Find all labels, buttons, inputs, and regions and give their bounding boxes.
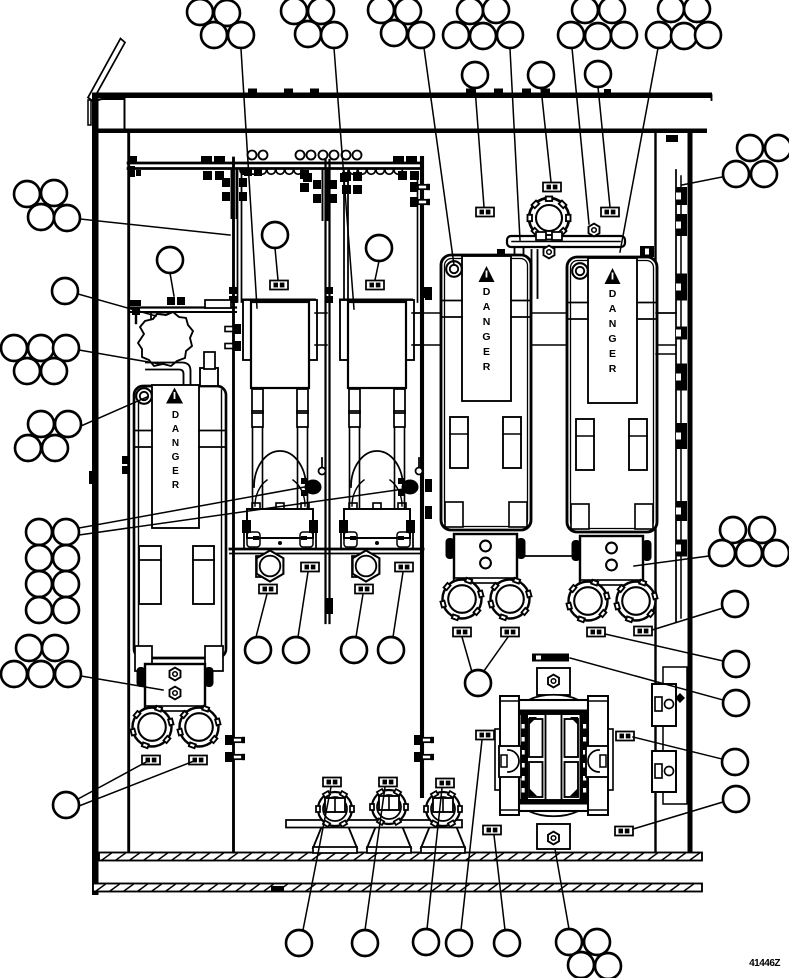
leader S0	[652, 608, 723, 630]
leader bot4	[461, 740, 482, 930]
svg-text:R: R	[609, 363, 617, 375]
balloon single bot3	[413, 929, 439, 955]
left unit windows	[139, 546, 214, 604]
left wall tab	[89, 471, 93, 484]
divider 3 bolts top	[410, 182, 431, 298]
transformer black bar	[532, 654, 569, 662]
leader single 170	[170, 273, 174, 296]
terminal connecting line	[517, 555, 575, 557]
right wall C brackets	[676, 187, 687, 205]
transformer body	[495, 695, 613, 816]
balloon cluster H	[1, 335, 79, 384]
balloon cluster J	[709, 517, 789, 566]
rail nut group right end	[393, 156, 419, 180]
left unit rail parts	[130, 297, 185, 323]
svg-text:A: A	[483, 301, 491, 313]
leader S3	[633, 737, 722, 759]
svg-text:D: D	[172, 410, 179, 421]
mid hub 1	[256, 551, 283, 582]
right unit 1	[440, 255, 531, 620]
leader H	[79, 350, 160, 364]
svg-text:E: E	[172, 466, 179, 477]
label box wire clamp	[151, 313, 169, 322]
insulator caps	[325, 798, 345, 812]
balloon single 478	[465, 670, 491, 696]
svg-text:N: N	[172, 438, 179, 449]
right unit bottom labels	[453, 627, 652, 637]
transformer top tab	[537, 668, 570, 695]
roof bolt heads	[248, 89, 611, 94]
leader C	[424, 48, 454, 265]
leader S2	[570, 658, 723, 700]
top area labels	[476, 183, 619, 217]
cabinet top front rail	[92, 93, 712, 134]
band tick	[271, 886, 284, 892]
leader F	[620, 48, 658, 252]
outlet 1	[652, 684, 685, 726]
leader left cluster	[80, 219, 230, 235]
balloon single 598	[585, 61, 611, 87]
balloon single M1	[262, 222, 288, 248]
balloon single S2	[723, 690, 749, 716]
insulator rings	[316, 789, 462, 827]
balloon single M2	[366, 235, 392, 261]
balloon single bot5	[494, 930, 520, 956]
right unit grommets	[446, 261, 588, 279]
left unit hinge bracket	[200, 352, 218, 386]
insulator bells	[313, 816, 357, 848]
balloon single bot4	[446, 930, 472, 956]
divider panel 2	[326, 160, 330, 623]
hanger bracket center	[303, 170, 349, 220]
outlet 2	[652, 751, 676, 792]
right wall bracket rail	[656, 170, 681, 622]
cable blob	[138, 312, 193, 366]
balloon single 475	[462, 62, 488, 88]
leader bot2	[365, 787, 385, 930]
divider panel 3	[420, 158, 424, 796]
balloon single 170	[157, 247, 183, 273]
balloon single mid2	[283, 637, 309, 663]
hanger bracket left panel	[222, 168, 250, 218]
insulator shelf	[286, 820, 462, 828]
balloon cluster L	[1, 635, 81, 687]
left unit grommet	[136, 388, 152, 404]
left unit label boxes	[142, 756, 207, 765]
left unit top rail	[129, 300, 236, 312]
bay drop lines	[238, 171, 418, 302]
leader mid3	[356, 594, 363, 637]
svg-text:41446Z: 41446Z	[749, 958, 780, 969]
balloon cluster G	[723, 135, 789, 187]
balloon single SL	[53, 792, 79, 818]
insulator labels	[323, 778, 454, 788]
right unit 2	[566, 257, 657, 622]
leader M1	[275, 248, 278, 280]
rail nut group left	[201, 156, 225, 180]
balloon cluster D	[443, 0, 523, 49]
svg-text:A: A	[609, 303, 617, 315]
leader bot3	[427, 788, 442, 929]
left unit danger label	[152, 385, 199, 528]
leader B	[334, 48, 354, 309]
balloon cluster bot	[556, 929, 621, 978]
leader single 475	[475, 88, 484, 207]
leader mid4	[393, 572, 403, 637]
leader bot5	[494, 835, 505, 930]
leader G	[682, 176, 727, 185]
leader mid2	[298, 572, 308, 637]
divider 1 bolts bottom	[225, 735, 245, 762]
left unit conduit rings	[130, 706, 220, 748]
divider 2 tabs	[325, 287, 333, 614]
leader I	[81, 397, 147, 426]
balloon single bot2	[352, 930, 378, 956]
balloon cluster C	[368, 0, 434, 48]
left unit feet	[135, 646, 223, 671]
cabinet top lid flap	[88, 39, 125, 126]
bottom sill hatched	[93, 861, 702, 892]
breaker cross wires	[315, 313, 676, 345]
left unit side bands	[134, 431, 226, 448]
leader SL1	[78, 761, 148, 799]
divider panel 1	[232, 158, 235, 852]
svg-text:E: E	[609, 348, 616, 360]
leader single 598	[598, 87, 610, 207]
bus bar	[497, 236, 625, 298]
balloon single 541	[528, 62, 554, 88]
leader single 65	[78, 294, 156, 316]
middle breaker 1	[242, 299, 326, 549]
clamp ring	[528, 197, 571, 241]
balloon single S3	[722, 749, 748, 775]
right wall small mark	[666, 135, 678, 142]
leader K1	[79, 486, 310, 528]
balloon single 65	[52, 278, 78, 304]
top mounting rail	[128, 163, 422, 169]
balloon cluster left top	[14, 180, 80, 231]
leader K2	[79, 489, 404, 535]
leader 478b	[484, 637, 508, 671]
leader J	[634, 556, 709, 566]
leader S1	[605, 634, 723, 661]
rail washers	[248, 151, 362, 160]
svg-text:G: G	[608, 333, 616, 345]
svg-text:N: N	[609, 318, 617, 330]
leader bot6	[555, 849, 569, 929]
balloon single mid4	[378, 637, 404, 663]
mid hub 2	[352, 551, 379, 582]
left wall	[92, 96, 129, 895]
divider 1 tabs	[122, 287, 237, 474]
svg-text:A: A	[172, 424, 179, 435]
svg-text:E: E	[483, 346, 490, 358]
middle breaker 2	[339, 299, 423, 549]
balloon single mid1	[245, 637, 271, 663]
svg-text:R: R	[172, 480, 180, 491]
bar bolts	[544, 224, 655, 273]
balloon single S0	[722, 591, 748, 617]
balloon single mid3	[341, 637, 367, 663]
svg-text:D: D	[483, 286, 491, 298]
leader single 541	[541, 88, 551, 182]
breaker wall bolts	[225, 324, 241, 351]
svg-text:D: D	[609, 288, 617, 300]
balloon cluster E	[558, 0, 637, 49]
leader D	[510, 49, 520, 240]
conduit duct	[146, 363, 191, 386]
bottom floor rail hatched	[99, 853, 702, 861]
leader S4	[633, 802, 723, 829]
svg-text:N: N	[483, 316, 491, 328]
left unit terminal block	[137, 664, 214, 711]
balloon single bot1	[286, 930, 312, 956]
right wall	[656, 132, 693, 853]
balloon single S4	[723, 786, 749, 812]
breaker top labels	[270, 281, 384, 290]
divider 3 bolts bottom	[414, 735, 434, 762]
svg-text:G: G	[172, 452, 180, 463]
leader L	[81, 676, 163, 690]
svg-text:R: R	[483, 361, 491, 373]
leader E	[572, 48, 589, 224]
leader M2	[375, 261, 379, 280]
svg-text:G: G	[482, 331, 490, 343]
leader SL2	[79, 761, 194, 806]
mid hub labels	[259, 563, 413, 594]
leader A	[241, 49, 257, 308]
leader mid1	[256, 594, 267, 637]
right unit side bolts	[425, 287, 432, 519]
leader 478a	[462, 637, 472, 672]
balloon cluster K	[26, 519, 79, 623]
under-rail nuts extra	[244, 168, 362, 194]
mid base rail	[230, 549, 423, 554]
balloon cluster B	[281, 0, 347, 48]
left unit frame	[134, 386, 226, 658]
rail left end bracket	[128, 156, 141, 177]
transformer bottom tab	[537, 824, 570, 849]
rail scallops bay2	[349, 170, 402, 174]
balloon single S1	[723, 651, 749, 677]
balloon cluster F	[646, 0, 721, 49]
rail scallops	[240, 170, 302, 174]
leader bot1	[303, 787, 331, 930]
balloon cluster A	[187, 0, 254, 48]
balloon cluster I	[15, 411, 81, 461]
transformer labels	[476, 731, 634, 836]
outlet plate	[663, 667, 687, 804]
